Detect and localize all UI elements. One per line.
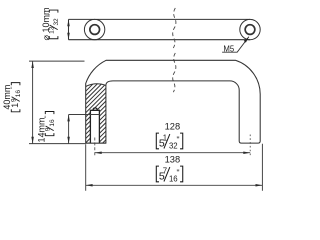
label [13/32in] vertical: [48, 10, 60, 39]
break line top view: [173, 8, 176, 48]
section cut boundary on left leg: [86, 84, 106, 87]
left leg bottom edge: [86, 142, 106, 144]
label [9/16in] vertical: [44, 112, 56, 136]
top view right end cap boss: [240, 19, 260, 39]
front view handle outline: [86, 60, 261, 143]
svg-text:M5: M5: [223, 45, 234, 54]
svg-text:128: 128: [165, 122, 181, 132]
dimension 14mm hole depth: [69, 115, 100, 144]
svg-text:9: 9: [44, 127, 51, 131]
screw hole in left leg: [91, 110, 100, 143]
svg-text:16: 16: [15, 90, 22, 98]
top view left boss circle: [84, 19, 104, 39]
dimension 138 overall length: [86, 144, 263, 191]
svg-text:138: 138: [165, 155, 181, 165]
centerline below left leg: [94, 138, 96, 157]
thread relief dome: [93, 108, 97, 110]
svg-text:1: 1: [10, 103, 20, 108]
top view left screw hole: [90, 25, 100, 35]
svg-text:": ": [177, 168, 180, 178]
svg-text:32: 32: [53, 18, 60, 26]
top view grip bar: [69, 19, 251, 39]
svg-text:9: 9: [10, 98, 17, 102]
dimension line diameter 10 at bar left end: [68, 19, 70, 39]
svg-text:": ": [177, 135, 180, 145]
centerline right leg: [249, 135, 251, 157]
label [5 1/32in]: [156, 133, 182, 150]
svg-text:16: 16: [49, 119, 56, 127]
dimension 40mm height: [29, 61, 86, 144]
dimension 128 hole centers: [95, 152, 250, 154]
top view right tapped hole M5: [245, 25, 255, 35]
label [5 7/16in]: [156, 166, 182, 183]
leader line M5: [222, 37, 249, 53]
label [1 9/16in] vertical: [10, 83, 22, 112]
break line front view: [173, 53, 176, 92]
